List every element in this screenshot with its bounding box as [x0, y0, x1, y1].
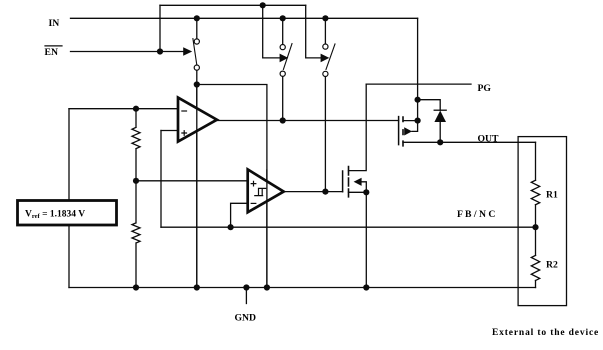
arrow EN to S1 — [183, 47, 192, 56]
wire diode branch — [418, 100, 441, 143]
node dot diode/OUT — [437, 139, 443, 145]
wire EN input — [71, 51, 184, 53]
op-amp U2 comparator — [248, 169, 284, 212]
wire FB / NC — [161, 226, 536, 228]
node dot IN/S3 — [322, 15, 328, 21]
transistor Q2 body arrow — [354, 178, 362, 186]
hysteresis symbol — [255, 188, 266, 195]
node dot FB/R1R2 — [532, 224, 538, 230]
wire top EN rail — [160, 4, 306, 6]
svg-text:PG: PG — [478, 83, 492, 94]
wire Q2 source — [349, 192, 367, 287]
wire Q1 drain — [403, 120, 418, 122]
wire feed to switch S3 — [306, 5, 321, 58]
switch S1 contacts — [194, 39, 328, 77]
transistor Q2 NMOS gate plate — [342, 171, 344, 192]
transistor Q1 PMOS gate plate — [398, 117, 400, 145]
transistor Q1 body arrow — [404, 127, 412, 135]
external box — [518, 137, 566, 306]
wire riser redrawn over U2 — [266, 170, 268, 288]
wire Q2 body tie — [361, 182, 366, 193]
wire switch S3 drop — [324, 18, 326, 191]
wire Q2 drain riser — [349, 84, 367, 171]
wire U2 output to Q2 gate — [284, 191, 343, 193]
switch S3 blade — [326, 44, 335, 70]
node dot divider tap — [133, 178, 139, 184]
resistor divider upper — [132, 109, 140, 181]
resistor R2 — [531, 255, 539, 280]
node dot FB branch — [228, 224, 234, 230]
node dot IN/S1 — [194, 15, 200, 21]
node dot U2 output S3 — [322, 189, 328, 195]
node dot A below S1 — [194, 81, 200, 87]
svg-text:OUT: OUT — [478, 134, 500, 145]
wire ground bus — [69, 287, 536, 289]
diode D1 cathode bar — [434, 109, 446, 111]
node dot IN/S2 — [280, 15, 286, 21]
node dot gate line S2 — [280, 117, 286, 123]
resistor R1 — [531, 180, 539, 204]
wire U1 output to Q1 gate — [217, 120, 399, 122]
svg-text:External to the device: External to the device — [492, 328, 599, 338]
resistor R2 lead — [535, 281, 537, 288]
node dot top rail — [260, 2, 266, 8]
node dot Q1 drain — [415, 118, 421, 124]
node dot IN/diode — [415, 97, 421, 103]
switch S1 blade — [193, 39, 197, 65]
wire U1 noninverting input — [161, 130, 178, 132]
switch S3 contacts — [323, 44, 328, 49]
wire switch S1 to node — [196, 18, 198, 84]
wire left rail — [68, 109, 70, 288]
wire OUT — [403, 141, 536, 143]
Vref box — [18, 201, 117, 226]
svg-text:EN: EN — [45, 47, 58, 58]
svg-text:R2: R2 — [546, 260, 558, 271]
svg-text:R1: R1 — [546, 190, 558, 201]
node dot bus GND — [243, 284, 249, 290]
diode D1 — [434, 111, 446, 123]
transistor Q1 channel — [402, 117, 404, 146]
wire riser through U1 — [196, 85, 198, 288]
wire EN riser left — [159, 5, 161, 51]
node dot bus riser — [264, 284, 270, 290]
wire IN drop to Q1 — [412, 18, 418, 131]
svg-text:F B / N C: F B / N C — [457, 209, 495, 220]
resistor divider lower — [132, 181, 140, 288]
wire switch S2 drop — [282, 18, 284, 120]
switch S2 blade — [283, 44, 292, 70]
wire PG — [366, 83, 471, 85]
node dot Q2 source — [363, 189, 369, 195]
op-amp U1 — [178, 98, 217, 142]
wire GND stub — [245, 288, 247, 304]
node dot EN riser — [157, 48, 163, 54]
wire U1 inverting input — [69, 108, 178, 110]
arrow to S3 — [321, 54, 330, 63]
svg-text:GND: GND — [235, 313, 257, 324]
node dot bus divider — [133, 284, 139, 290]
wire riser redrawn over U1 — [196, 86, 198, 288]
switch S2 contacts — [280, 45, 285, 50]
wire OUT to R1 — [535, 142, 537, 180]
wire FB riser — [160, 131, 162, 228]
wire node A to riser — [197, 85, 267, 288]
wire feed to switch S2 — [263, 5, 280, 58]
transistor Q2 channel — [348, 167, 350, 197]
resistor R1 lead — [535, 205, 537, 256]
node dot divider top — [133, 106, 139, 112]
arrow to S2 — [280, 54, 289, 63]
svg-text:IN: IN — [49, 18, 60, 29]
wire IN rail — [71, 17, 418, 19]
node dot bus Q2 — [363, 284, 369, 290]
wire divider tap to U2 — [136, 180, 248, 182]
node dot bus U1 riser — [194, 284, 200, 290]
wire U2 inverting input — [231, 203, 248, 227]
